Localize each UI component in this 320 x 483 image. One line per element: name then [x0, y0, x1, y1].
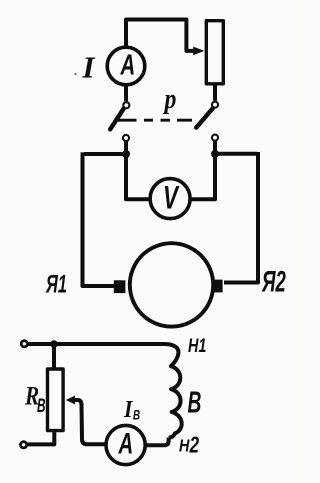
wire left rail down to brush	[83, 152, 115, 286]
wire Rv bottom to terminal	[28, 431, 55, 445]
svg-text:Я2: Я2	[261, 267, 286, 299]
svg-text:В: В	[188, 386, 202, 420]
switch P right upper contact	[212, 102, 218, 108]
wire left contact to node	[124, 141, 128, 155]
switch P right lower contact	[212, 135, 218, 141]
voltmeter V circle	[150, 179, 190, 219]
arrowhead into Rv	[66, 396, 75, 405]
brush left	[114, 280, 126, 293]
svg-text:A: A	[120, 49, 135, 81]
svg-text:В: В	[37, 396, 46, 416]
switch P left lower contact	[123, 135, 129, 141]
inductor coil B	[164, 344, 182, 438]
switch P left blade	[110, 109, 123, 130]
wire node down to rheostat Rv	[52, 344, 56, 370]
wire right rail down to brush	[224, 152, 258, 283]
node junction left	[122, 150, 130, 158]
switch P linkage dashed	[118, 119, 193, 122]
wire node to right rail	[215, 152, 257, 156]
brush right	[213, 280, 223, 293]
ammeter A2 circle	[106, 425, 145, 464]
switch P left upper contact	[123, 102, 129, 108]
wire right contact to node	[213, 141, 217, 155]
svg-text:A: A	[118, 428, 134, 461]
svg-text:I: I	[123, 396, 133, 422]
svg-text:В: В	[133, 407, 140, 423]
ammeter A1 circle	[107, 47, 145, 85]
wire ammeter A2 to coil H2	[145, 438, 169, 446]
node junction field top	[50, 340, 58, 348]
svg-text:p: p	[163, 82, 177, 115]
svg-text:V: V	[163, 180, 180, 216]
machine armature circle	[130, 243, 213, 326]
svg-text:I: I	[82, 49, 96, 84]
wire ammeter bottom to switch contact	[124, 86, 128, 102]
wire voltmeter right drop	[191, 154, 215, 199]
resistor P1 (rheostat body)	[206, 21, 223, 84]
svg-text:Я1: Я1	[45, 271, 67, 298]
switch P right blade	[196, 109, 212, 128]
svg-text:2: 2	[189, 433, 200, 458]
wiper arrow of Rv	[74, 400, 107, 444]
field terminal bottom	[21, 442, 27, 448]
field terminal top	[21, 341, 27, 347]
wire terminal to coil H1	[28, 342, 164, 346]
wire ammeter top elbow to rheostat	[126, 20, 194, 51]
svg-text:Н1: Н1	[188, 335, 206, 356]
wire rheostat bottom to switch contact	[213, 84, 217, 101]
arrowhead into rheostat P1 wiper	[193, 47, 204, 56]
wire voltmeter left drop	[126, 154, 151, 199]
wire node to left rail	[84, 152, 126, 156]
resistor Rv body	[48, 369, 64, 431]
node junction right	[211, 150, 219, 158]
